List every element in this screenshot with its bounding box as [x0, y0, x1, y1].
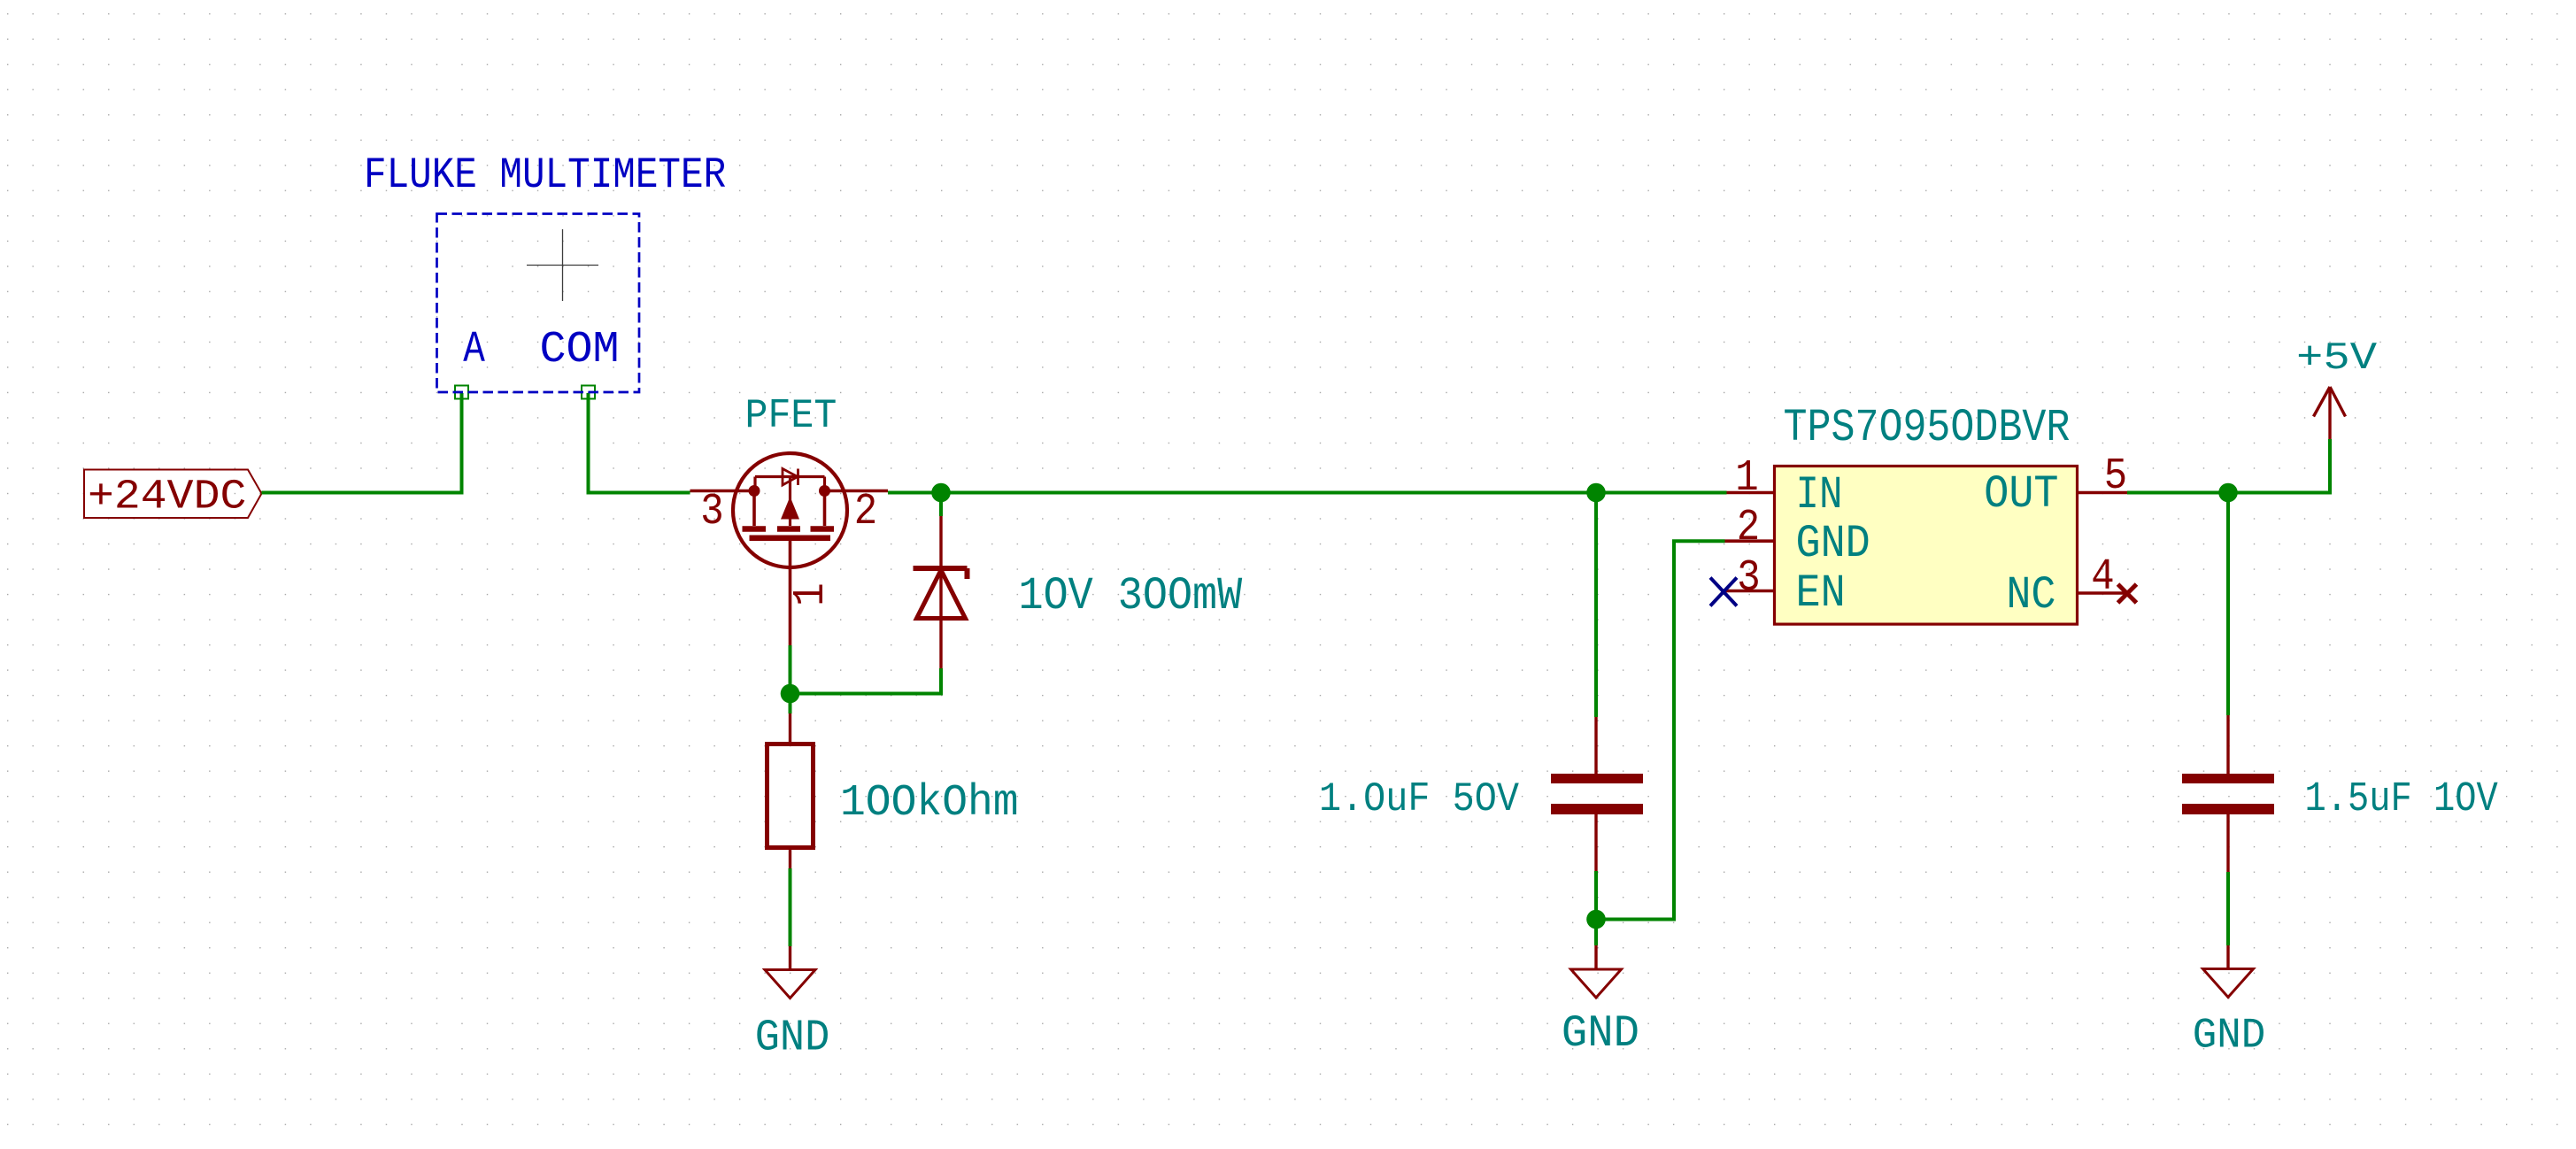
svg-text:1: 1	[787, 582, 837, 605]
svg-text:1.5uF 1OV: 1.5uF 1OV	[2305, 776, 2499, 823]
svg-text:PFET: PFET	[745, 394, 837, 440]
wire multimeter COM to PFET	[589, 393, 690, 493]
unconnected pin cross NC	[2118, 584, 2137, 603]
svg-text:1OV 3OOmW: 1OV 3OOmW	[1019, 570, 1243, 622]
IC pin 4 stub	[2078, 591, 2125, 595]
resistor 100kOhm pin top	[789, 713, 791, 744]
junction node gate/zener/resistor	[781, 684, 800, 704]
multimeter dashed box	[437, 214, 640, 393]
IC pin 2 stub	[1725, 539, 1775, 543]
dangling end square COM	[582, 386, 595, 399]
svg-text:3: 3	[1737, 554, 1760, 604]
svg-text:1: 1	[1735, 454, 1758, 504]
ground symbol GND2	[1571, 945, 1622, 998]
ground symbol GND1	[765, 946, 815, 999]
wire zener to gate node	[789, 692, 943, 696]
wire junction to zener	[939, 493, 943, 517]
svg-text:OUT: OUT	[1984, 468, 2058, 521]
svg-text:+5V: +5V	[2296, 337, 2378, 381]
ground symbol GND3	[2203, 945, 2254, 998]
svg-text:GND: GND	[1562, 1008, 1639, 1060]
svg-text:GND: GND	[1796, 518, 1870, 570]
svg-text:4: 4	[2091, 553, 2114, 603]
capacitor C2 1.5uF pin top	[2226, 715, 2229, 775]
capacitor C1 1.0uF pin top	[1594, 717, 1597, 775]
wire ground return to IC GND pin	[1596, 541, 1725, 919]
power symbol +5V	[2314, 387, 2346, 439]
svg-text:TPS7O95ODBVR: TPS7O95ODBVR	[1784, 402, 2071, 454]
wire +24VDC to multimeter A	[262, 393, 462, 493]
resistor 100kOhm body	[767, 744, 814, 848]
svg-text:FLUKE MULTIMETER: FLUKE MULTIMETER	[364, 150, 726, 199]
wire junction to output cap	[2226, 493, 2230, 716]
wire zener anode down	[939, 668, 943, 695]
IC pin 5 stub	[2078, 491, 2128, 495]
wire cap C2 to GND3	[2226, 872, 2230, 945]
capacitor C2 pin bottom	[2226, 814, 2229, 872]
svg-text:GND: GND	[2193, 1013, 2266, 1060]
multimeter cross	[527, 229, 598, 301]
IC U1 TPS70950DBVR body	[1775, 467, 2078, 625]
svg-text:3: 3	[700, 488, 723, 537]
svg-text:COM: COM	[540, 325, 620, 375]
junction node at zener tap	[931, 483, 951, 503]
IC pin 1 stub	[1727, 491, 1775, 495]
svg-text:EN: EN	[1796, 567, 1846, 620]
wire PFET drain to IC IN	[888, 491, 1727, 495]
svg-text:IN: IN	[1796, 470, 1843, 521]
svg-text:1.OuF 5OV: 1.OuF 5OV	[1319, 776, 1520, 822]
svg-text:GND: GND	[755, 1013, 830, 1063]
wire IC OUT to +5V	[2127, 439, 2330, 493]
capacitor C2 plates	[2182, 774, 2274, 814]
junction node cap1 ground	[1586, 910, 1606, 929]
svg-text:2: 2	[854, 488, 877, 537]
transistor PFET Q	[690, 453, 889, 645]
resistor pin bottom	[789, 848, 791, 869]
svg-text:A: A	[463, 324, 485, 374]
junction node output cap	[2218, 483, 2238, 503]
wire resistor to GND	[789, 868, 792, 946]
wire cap C1 to ground junction	[1594, 871, 1598, 920]
svg-text:2: 2	[1737, 504, 1760, 553]
zener diode 10V	[914, 516, 968, 668]
wire junction to GND2	[1594, 920, 1598, 946]
IC pin 3 stub	[1725, 590, 1775, 593]
dangling end square A	[455, 386, 468, 399]
junction node at input cap	[1586, 483, 1606, 503]
no-connect cross EN	[1710, 578, 1737, 606]
capacitor C1 plates	[1551, 774, 1643, 814]
svg-text:1OOkOhm: 1OOkOhm	[840, 777, 1019, 828]
wire junction to input cap	[1594, 493, 1598, 718]
svg-text:5: 5	[2104, 452, 2127, 502]
power flag +24VDC	[84, 470, 262, 521]
svg-text:NC: NC	[2006, 569, 2055, 621]
capacitor C1 pin bottom	[1594, 814, 1597, 871]
svg-text:+24VDC: +24VDC	[88, 474, 246, 521]
wire PFET gate down	[789, 645, 792, 713]
